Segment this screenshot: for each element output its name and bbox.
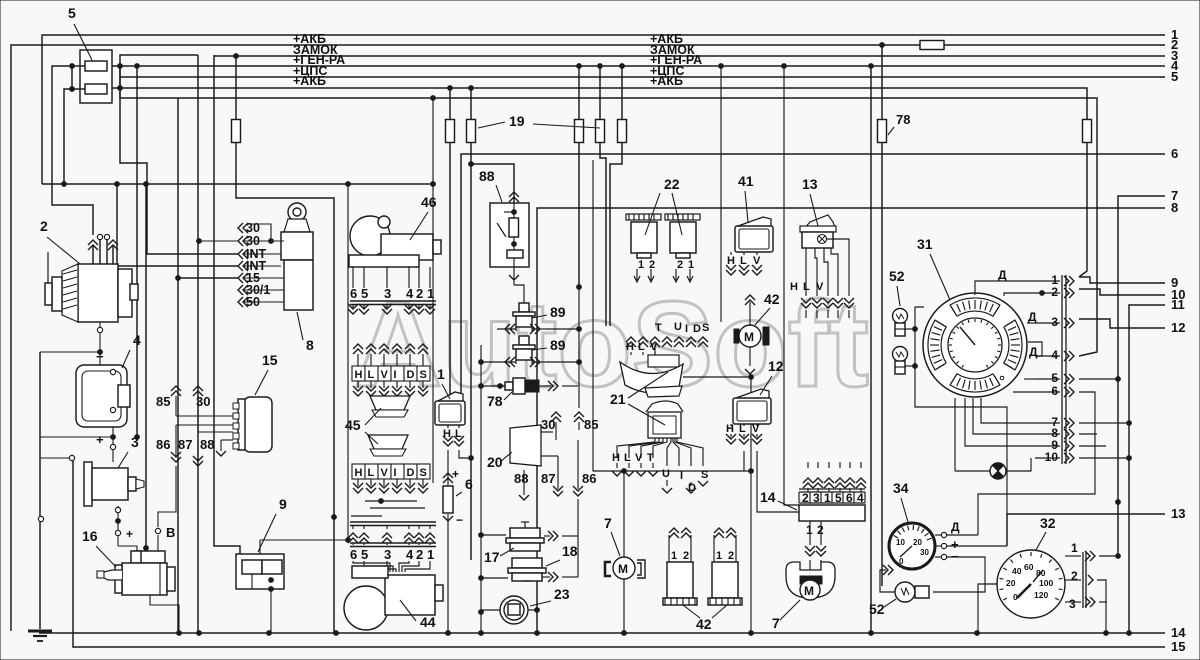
svg-text:D: D [407,467,415,479]
wire ignition feeds [199,240,238,242]
arrows below HLVIDS lower [357,479,359,486]
wire trunk x235 fuse 19a elbow x335 [235,56,237,120]
svg-text:+: + [126,527,133,541]
wire starter to ground bus [150,595,179,633]
svg-text:2: 2 [416,286,423,301]
svg-text:86: 86 [156,437,170,452]
speedometer 32 [997,550,1065,618]
svg-text:I: I [685,323,688,335]
sender 18 wires [481,577,508,579]
washer reservoir 20 [510,425,553,466]
svg-text:42: 42 [764,291,780,307]
terminal 11 wire [1129,305,1165,633]
svg-text:1: 1 [638,259,644,271]
wire alternator B+ down [99,322,101,340]
rocker switch 41 [738,217,771,226]
relay 3 terminals [69,455,74,460]
svg-text:87: 87 [178,437,192,452]
wires strip right side [1079,378,1118,380]
valve 89 upper wires [497,328,516,330]
svg-text:7: 7 [772,615,780,631]
svg-text:3: 3 [1069,597,1076,611]
valve 89 lower wires [481,361,516,363]
svg-text:12: 12 [768,358,784,374]
svg-text:120: 120 [1034,590,1048,600]
wire trunk x214 from bus3 [214,55,240,554]
flasher 22a [626,214,661,258]
connector labels T U I D S upper [626,321,709,353]
svg-text:V: V [816,281,824,293]
speedo connector wires [1065,555,1081,557]
terminal 9 wire [1079,277,1165,283]
headlamp 21b fan-out wires [617,438,655,458]
svg-text:5: 5 [68,5,76,21]
svg-text:1: 1 [671,550,677,562]
electric motor 7 [605,557,645,579]
wire trunk x751 [750,378,752,633]
svg-text:L: L [368,369,375,381]
switch 13 indicator lamp [818,235,827,244]
fuse block 5 [80,50,112,103]
svg-text:H: H [790,281,798,293]
voltage regulator 4 [76,365,130,427]
svg-text:30: 30 [920,548,929,557]
wire 86 down to sender bracket [577,440,579,489]
svg-text:18: 18 [562,543,578,559]
flasher 22b [665,214,700,258]
arrows above row lower [350,521,436,523]
connector labels H L V T lower [612,452,708,494]
terminal 8 wire [537,208,1165,633]
wire x471 to relay 88 [471,164,514,203]
wiper motor 46 [349,216,441,267]
svg-text:10: 10 [896,538,905,547]
svg-text:5: 5 [1051,371,1058,385]
junction dots right trunks [1116,500,1121,505]
svg-text:L: L [624,452,631,464]
svg-text:8: 8 [1171,200,1178,215]
wire speedo left down [978,584,997,633]
wire pump 7 pins [809,570,811,576]
wire valve feed from relay88 [514,285,524,303]
switch 13 harness chevrons [801,303,811,308]
svg-text:88: 88 [479,168,495,184]
speedometer connector [1082,552,1084,608]
motor 46 connector arrows [352,267,354,288]
wire drop x622 fuse 19f [621,66,623,120]
fuse 19a [232,120,241,143]
svg-text:42: 42 [696,616,712,632]
washer pump 7 with motor [786,562,835,600]
wire trunk x579 middle [578,287,580,408]
fuse on bus line 2 [920,41,944,50]
svg-text:23: 23 [554,586,570,602]
headlamp 21a shade [620,362,683,393]
wire long feed y184 to trunk x433 [42,183,433,185]
svg-text:11: 11 [1171,297,1185,312]
wire trunk x593 [593,160,751,471]
svg-text:3: 3 [813,491,820,505]
svg-text:1: 1 [1071,541,1078,555]
svg-text:H: H [727,255,735,267]
wire 86 down to node B [158,466,176,527]
svg-text:13: 13 [802,176,818,192]
svg-text:78: 78 [896,112,910,127]
ignition switch 8 [281,203,313,310]
wire bus line 3 ЗАМОК left segment [120,55,198,77]
switch 13 wires down [805,248,807,296]
connector H L V I D S upper [352,366,430,381]
svg-text:V: V [753,255,761,267]
ammeter 34 [889,523,935,569]
resistor 6 [443,486,453,513]
svg-text:Д: Д [1029,345,1038,359]
horn 45b [368,435,408,449]
svg-text:U: U [674,321,682,333]
wire trunk x198 from bus3 [197,55,199,633]
relay 9 wires [251,574,253,589]
wires into plug 21a [654,347,656,355]
svg-text:52: 52 [889,268,905,284]
harness chevrons upper headlamp [626,337,636,342]
svg-text:3: 3 [384,286,391,301]
ammeter terminal wires [935,534,941,536]
svg-text:5: 5 [835,491,842,505]
wire regulator to relay 3 [112,427,114,462]
svg-text:20: 20 [913,538,922,547]
wire drop x450 fuse 19b to switch 1 [449,88,451,120]
svg-text:H: H [612,452,620,464]
wire drop x600 fuse 19e [599,66,601,120]
svg-text:S: S [701,469,708,481]
wires cluster right to strip rows 5 6 [1024,378,1035,380]
svg-text:19: 19 [509,113,525,129]
svg-text:6: 6 [1051,384,1058,398]
svg-text:45: 45 [345,417,361,433]
wires cluster bottom to strip [981,398,1035,423]
arrows lower connector [616,463,618,468]
fuse 78 [878,120,887,143]
svg-text:5: 5 [361,547,368,562]
wire bus line 6 +АКБ [107,88,1087,119]
svg-text:52: 52 [869,601,885,617]
lamp 52 bottom wires [880,570,895,592]
svg-text:89: 89 [550,304,566,320]
wire INT feed upper [120,66,238,254]
signal lamp (quadrant circle) [990,463,1006,479]
svg-text:2: 2 [649,259,655,271]
flasher pin arrows [636,269,638,280]
motor 7 wires [623,471,625,557]
starter motor 16 [97,551,175,595]
alternator output wires [92,246,94,264]
arrows below HLVIDS upper [357,381,359,388]
svg-text:20: 20 [1006,578,1016,588]
svg-text:21: 21 [610,391,626,407]
rocker switch 13 [803,215,836,230]
svg-text:2: 2 [1071,569,1078,583]
svg-text:41: 41 [738,173,754,189]
fuse block 5 left wires [72,65,85,67]
svg-text:S: S [420,467,427,479]
wire left trunk to ground [39,352,41,629]
svg-text:6: 6 [350,286,357,301]
svg-text:15: 15 [262,352,278,368]
switch 13 lamp wire right [827,239,849,296]
terminal 7 wire [1118,196,1165,556]
wire drop x471 fuse 19c [470,88,472,120]
horn 23 [500,596,528,624]
svg-text:12: 12 [1171,320,1185,335]
wire trunk x784 to connector 14 [784,66,799,505]
svg-text:+: + [96,432,104,447]
wires switch 12 down [743,451,745,471]
alternator 2 [45,252,138,322]
svg-text:1: 1 [437,366,445,382]
wire bus line 3 ЗАМОК (terminal 3) [214,55,1165,57]
svg-text:0: 0 [899,557,904,566]
svg-text:Д: Д [998,268,1007,282]
svg-text:88: 88 [514,471,528,486]
wire bus line 4 +ГЕН-РА (terminal 4) [107,65,1165,67]
svg-text:H: H [355,369,363,381]
bottom bus junction dots [177,631,182,636]
svg-text:+АКБ: +АКБ [293,74,326,88]
svg-text:1: 1 [688,259,694,271]
signal lamp wires [955,470,990,472]
svg-text:15: 15 [1171,639,1185,654]
wire trunk x481 [480,345,482,633]
svg-text:14: 14 [1171,625,1186,640]
svg-text:17: 17 [484,549,500,565]
connector 15 wires [176,415,233,417]
wire relay to starter solenoid [117,506,119,546]
rocker switch 1 [438,392,463,401]
svg-text:L: L [739,423,746,435]
wire drop x871 trunk [870,66,872,633]
svg-text:M: M [804,584,814,598]
svg-text:6: 6 [350,547,357,562]
svg-text:4: 4 [133,332,141,348]
svg-text:2: 2 [802,491,809,505]
svg-text:1: 1 [716,550,722,562]
wire alternator to regulator [99,340,101,365]
wire trunk x178 from bus7 [177,98,179,633]
oil pressure sensor 78 [481,378,551,394]
wire trunk x433 [432,98,434,483]
warning lamp 52b [893,347,908,362]
svg-text:5: 5 [361,286,368,301]
svg-text:3: 3 [131,434,139,450]
svg-text:32: 32 [1040,515,1056,531]
svg-text:89: 89 [550,337,566,353]
wire horizontal y471 [749,469,754,474]
connector 14 arrows top [803,478,813,483]
lamp 52 bottom [895,582,929,602]
svg-text:13: 13 [1171,506,1185,521]
svg-text:H: H [355,467,363,479]
svg-text:V: V [381,467,389,479]
terminal 6 wire [461,154,1165,401]
wire trunk x137 to regulator node [136,66,138,437]
svg-text:5: 5 [1171,69,1178,84]
ammeter terminals [941,532,946,537]
svg-text:31: 31 [917,236,933,252]
wire drop x579 fuse 19d [578,66,580,120]
svg-text:I: I [680,470,683,482]
svg-text:3: 3 [384,547,391,562]
svg-text:4: 4 [857,491,864,505]
headlamp 21b [646,401,683,412]
svg-text:M: M [744,330,754,344]
connector H L V I D S lower [352,464,430,479]
wire trunk x146 [145,184,147,548]
wire switch1 H down to resistor 6 [447,450,449,486]
relay 88 box [490,203,529,267]
sender 17 wires [481,534,506,536]
cluster connector strip [1061,275,1063,464]
svg-text:V: V [635,452,643,464]
svg-text:V: V [381,369,389,381]
relay 9 [236,554,284,589]
solenoid valve 89 lower [519,336,529,345]
svg-text:4: 4 [406,286,414,301]
connector 14 [799,489,865,521]
svg-text:14: 14 [760,489,776,505]
svg-text:6: 6 [465,476,473,492]
heater motor 42 [734,325,769,347]
svg-text:Д: Д [951,520,960,534]
wire drop x882 fuse 78 [881,45,883,120]
svg-text:+: + [452,467,459,481]
svg-text:I: I [394,369,397,381]
warning lamp 52a [893,309,908,324]
wire relay left terminal to x40 [40,457,69,459]
svg-text:Д: Д [1028,310,1037,324]
svg-text:H: H [443,428,451,440]
svg-text:T: T [647,452,654,464]
svg-text:2: 2 [416,547,423,562]
svg-text:M: M [618,562,628,576]
horn 23 wires [481,609,500,611]
solenoid valve 89 upper [519,303,529,312]
svg-text:7: 7 [604,515,612,531]
headlamp plug 21a [648,355,679,367]
svg-text:44: 44 [420,614,436,630]
fuse on right frame drop [1083,120,1092,143]
wiper motor 44 [344,566,443,630]
svg-text:1: 1 [427,547,434,562]
svg-text:86: 86 [582,471,596,486]
svg-text:2: 2 [677,259,683,271]
svg-text:4: 4 [406,547,414,562]
wire relay88 bottom [513,258,515,285]
svg-text:34: 34 [893,480,909,496]
svg-text:100: 100 [1039,578,1053,588]
svg-text:16: 16 [82,528,98,544]
wire cluster left bracket to terminal 13 trunk [915,307,1007,514]
svg-text:22: 22 [664,176,680,192]
svg-text:46: 46 [421,194,437,210]
svg-text:9: 9 [279,496,287,512]
svg-text:2: 2 [683,550,689,562]
svg-text:4: 4 [1051,348,1058,362]
fuel sender 18 [508,558,546,581]
svg-text:T: T [655,322,662,334]
svg-text:40: 40 [1012,566,1022,576]
ground bus terminal 15 [73,461,1165,647]
svg-text:S: S [420,369,427,381]
svg-text:10: 10 [1045,450,1059,464]
wire sender bracket [577,536,579,577]
fuel sender 17 [506,522,544,551]
svg-text:V: V [752,423,760,435]
wire bus line 1 (terminal 1) [42,35,1165,184]
svg-text:I: I [394,467,397,479]
wire INT feed lower [117,184,238,266]
svg-text:78: 78 [487,393,503,409]
svg-text:85: 85 [156,394,170,409]
svg-text:2: 2 [728,550,734,562]
connector 15 [233,397,272,452]
wire right frame drop x1097 [1079,160,1097,356]
wires row lower to motor 44 [353,561,390,572]
wire switch1 L to x471 trunk [459,450,468,458]
bus junction dots [118,64,123,69]
wire bus line 5 +ЦПС (terminal 5) [120,77,1165,88]
svg-text:+АКБ: +АКБ [650,74,683,88]
svg-text:D: D [407,369,415,381]
svg-text:L: L [368,467,375,479]
lamp 52 wires [905,328,915,330]
svg-text:D: D [693,323,701,335]
wire relay 9 top feed [259,540,261,554]
wires cluster top to strip [975,281,1035,295]
wire y377 tee to headlamp plug [683,376,751,378]
wire trunk x348 [347,184,349,540]
weave wires above lower row [365,500,417,502]
wire 30 bracket [251,224,271,241]
wire stub 15-row from trunk x178 [176,276,181,281]
svg-text:2: 2 [1051,285,1058,299]
svg-text:3: 3 [1051,315,1058,329]
connector row 6 5 3 4 2 1 lower [350,547,434,562]
wire sensor78 right [562,385,578,387]
svg-text:S: S [702,322,709,334]
node B terminal [155,528,160,533]
instrument cluster 31 [923,293,1027,397]
svg-text:6: 6 [846,491,853,505]
wire trunk x721 [719,64,724,69]
svg-text:87: 87 [541,471,555,486]
terminal 13 wire [1007,514,1165,546]
horn 45a [370,396,410,410]
starter relay 3 [84,462,144,506]
motor 42 wires [749,302,751,325]
svg-text:60: 60 [1024,562,1034,572]
svg-text:−: − [456,513,463,527]
svg-text:1: 1 [824,491,831,505]
terminal 12 wire [1079,319,1165,328]
ground symbol [28,630,52,633]
svg-text:U: U [662,468,670,480]
svg-text:2: 2 [40,218,48,234]
svg-text:L: L [803,281,810,293]
svg-text:88: 88 [200,437,214,452]
motor 42b cylinder [713,535,715,562]
arrows above HLVIDS upper [353,344,363,349]
wire resistor 6 down [447,514,449,633]
